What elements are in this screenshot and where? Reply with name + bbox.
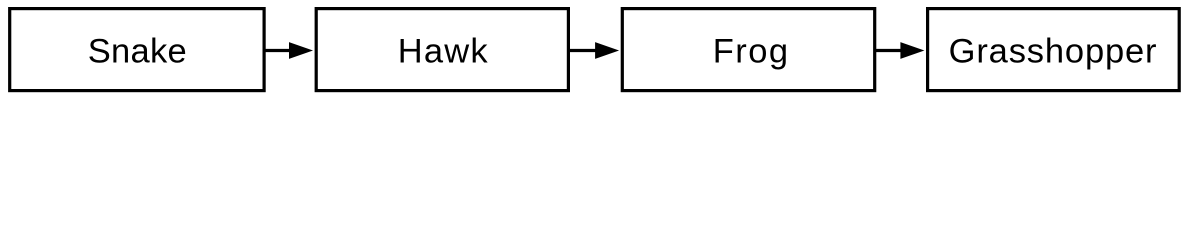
svg-text:Snake: Snake <box>88 33 187 71</box>
arrow Frog to Grasshopper : head <box>900 42 924 59</box>
arrow Frog to Grasshopper : shaft <box>875 49 902 52</box>
box Grasshopper <box>928 9 1180 91</box>
box Frog <box>622 9 874 91</box>
svg-text:Grasshopper: Grasshopper <box>949 33 1157 71</box>
arrow Snake to Hawk : head <box>289 42 313 59</box>
svg-text:Hawk: Hawk <box>398 33 489 71</box>
box Hawk <box>316 9 568 91</box>
svg-text:Frog: Frog <box>713 33 788 71</box>
box Snake <box>10 9 264 91</box>
arrow Hawk to Frog : head <box>595 42 619 59</box>
arrow Snake to Hawk : shaft <box>264 49 290 52</box>
arrow Hawk to Frog : shaft <box>568 49 596 52</box>
